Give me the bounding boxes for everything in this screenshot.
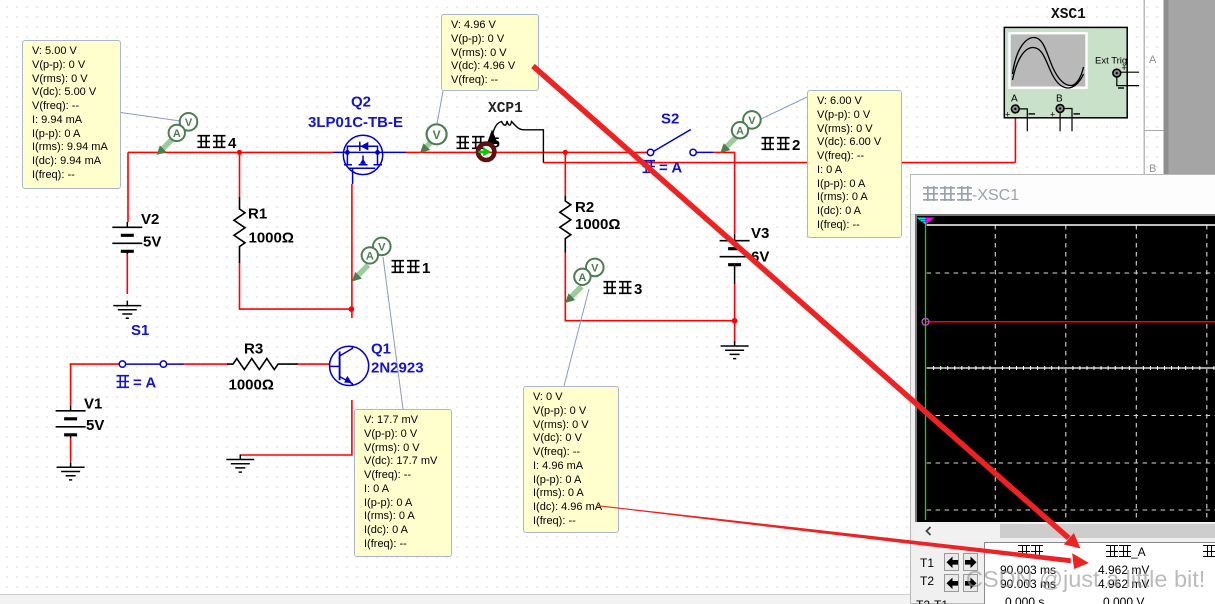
- transistor Q1 (NPN 2N2923): [329, 346, 369, 386]
- T1 left arrow button icon: [947, 557, 959, 569]
- wire: R2 top: [564, 152, 566, 196]
- transistor Q2 (P-MOSFET 3LP01C-TB-E): [333, 135, 406, 184]
- wire: Q2 drain down to junction: [351, 184, 353, 318]
- label 探针4: [198, 135, 238, 152]
- annotation arrow B (thin tapered): [598, 505, 1071, 563]
- probe 探针4 (AV): [157, 113, 198, 155]
- junction node dots: [237, 150, 737, 324]
- wire: R1 top: [239, 152, 241, 197]
- battery V3: [720, 234, 750, 284]
- label 探针3: [604, 281, 643, 298]
- blue link line note1-probe4: [121, 113, 180, 122]
- label 探针1: [392, 260, 431, 277]
- T1 row: [920, 556, 934, 570]
- time axis with ticks: [927, 367, 1215, 369]
- T2 right arrow button icon: [965, 578, 977, 590]
- label 探针2: [762, 137, 801, 154]
- resistor R3 (horizontal): [227, 359, 298, 370]
- switch S1 (closed): [119, 361, 184, 367]
- T2-T1 row: [916, 598, 948, 604]
- wire: R3 to Q1 base: [298, 363, 329, 365]
- probe 探针1 (AV): [352, 238, 391, 282]
- T2 left arrow button icon: [947, 578, 959, 590]
- table header 通道_B partial: [1203, 545, 1215, 559]
- label 键 = A (S1): [117, 375, 157, 392]
- blue link line probe2-note3: [760, 97, 807, 120]
- cursor crossing ring: [922, 318, 929, 325]
- table header 时间: [1018, 545, 1043, 559]
- probe 探针2 (AV): [720, 111, 760, 153]
- table header 通道_A: [1106, 545, 1146, 559]
- probe note box 3 (6.00V): [807, 90, 902, 238]
- T1 right arrow button icon: [965, 557, 977, 569]
- graticule dashed verticals: [995, 225, 1207, 520]
- label 探针5: [457, 135, 500, 152]
- battery V2: [112, 222, 142, 254]
- label 键 = A (S2): [643, 160, 683, 177]
- node: 探针4 junction: [237, 150, 242, 155]
- resistor R1: [234, 197, 245, 263]
- channel A trace (red): [926, 321, 1215, 323]
- CSDN watermark: [966, 566, 1205, 593]
- blue link line note2-probe5: [437, 91, 443, 124]
- desktop gray area top-right: [1164, 0, 1215, 174]
- probe note box 5 (0V 4.96mA): [523, 386, 619, 533]
- wire: scope feed horizontal: [543, 162, 1015, 164]
- wire: R2 bottom rail to V3 gnd: [565, 253, 734, 321]
- T2 row: [920, 574, 934, 588]
- wire: Q1 emitter down and left to gnd: [240, 400, 352, 455]
- wire: S1 to R3: [184, 363, 227, 365]
- cursor flag: [917, 218, 926, 225]
- annotation arrow A (thick diagonal): [533, 66, 1069, 538]
- cursor 1 green line: [925, 223, 927, 520]
- probe 探针5 (V only): [420, 124, 447, 153]
- wire: V2 branch: [127, 152, 129, 222]
- blue link line probe3-note5: [564, 289, 589, 386]
- sheet border zone strip: [1144, 0, 1163, 175]
- battery V1: [56, 406, 86, 438]
- wire: V2 to ground: [126, 250, 128, 294]
- graticule dashed horizontals: [927, 273, 1215, 510]
- wire: V1 vertical: [70, 364, 72, 406]
- oscilloscope icon XSC1: [1004, 27, 1139, 131]
- current probe XCP1: [478, 121, 543, 163]
- node: Q1 collector junction: [349, 306, 355, 312]
- ground (Q1 emitter): [226, 455, 254, 473]
- graticule top border line: [927, 224, 1215, 226]
- wire: V1 top to S1: [70, 363, 120, 365]
- switch S2 (open): [647, 130, 713, 156]
- wire: scope feed vertical to XSC1 A: [1014, 112, 1016, 163]
- probe note box 1 (5.00V): [22, 40, 121, 189]
- oscilloscope window 示波器-XSC1: [910, 174, 1215, 604]
- wire: S2 right to V3 corner: [713, 152, 735, 234]
- ground (below V3): [721, 341, 749, 359]
- probe 探针3 (AV): [565, 259, 604, 303]
- probe note box 2 (4.96V): [441, 14, 539, 91]
- probe note box 4 (17.7mV): [354, 409, 452, 557]
- wire: main top rail left: [128, 151, 333, 153]
- wire: Q2 right to S2: [406, 151, 648, 153]
- node: R2 top junction: [563, 150, 568, 155]
- resistor R2: [560, 196, 571, 253]
- node: V3 ground junction: [732, 318, 738, 324]
- wire: V3 bottom to gnd junction: [734, 284, 736, 343]
- ground (below V2): [113, 301, 141, 319]
- wire: R1 bottom to Q1 collector rail: [240, 263, 352, 309]
- ground (below V1): [57, 462, 85, 480]
- blue link line probe1-note4: [383, 257, 403, 409]
- status bar bottom: [0, 594, 911, 604]
- wire: V1 bottom: [70, 438, 72, 462]
